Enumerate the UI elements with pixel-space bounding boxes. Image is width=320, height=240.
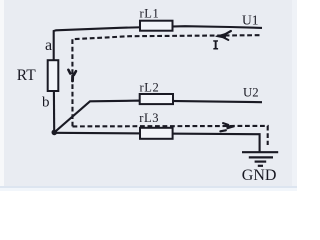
svg-text:rL3: rL3 (139, 111, 159, 125)
dashed current path: bottom run to GND (73, 126, 268, 145)
ground symbol (242, 152, 278, 166)
resistor rL2 body (140, 94, 173, 104)
arrow right (bottom dashed line) (220, 123, 233, 131)
svg-text:U2: U2 (243, 85, 259, 99)
svg-text:b: b (42, 95, 50, 111)
svg-text:U1: U1 (242, 13, 259, 28)
svg-text:GND: GND (242, 167, 277, 184)
wire: node a to U1 (RT top up and right through rL1) (54, 26, 262, 60)
arrow I left (top dashed line) (216, 31, 231, 40)
dashed current path: top run U1 to node a (72, 35, 259, 39)
dashed current path: vertical run along RT (71, 39, 73, 126)
resistor RT body (48, 60, 59, 91)
svg-text:RT: RT (17, 67, 36, 84)
resistor rL1 body (140, 21, 173, 31)
svg-text:rL2: rL2 (140, 80, 160, 94)
wire: RT bottom to junction (53, 91, 55, 132)
junction node b dot (52, 130, 58, 136)
arrow down (vertical dashed line) (68, 70, 76, 81)
svg-text:rL1: rL1 (140, 7, 160, 21)
wire: rL2 branch junction diagonal to U2 (54, 101, 262, 133)
wire: junction to GND through rL3 (54, 133, 259, 152)
svg-text:a: a (45, 37, 52, 54)
label I (213, 40, 218, 49)
resistor rL3 body (140, 128, 173, 139)
